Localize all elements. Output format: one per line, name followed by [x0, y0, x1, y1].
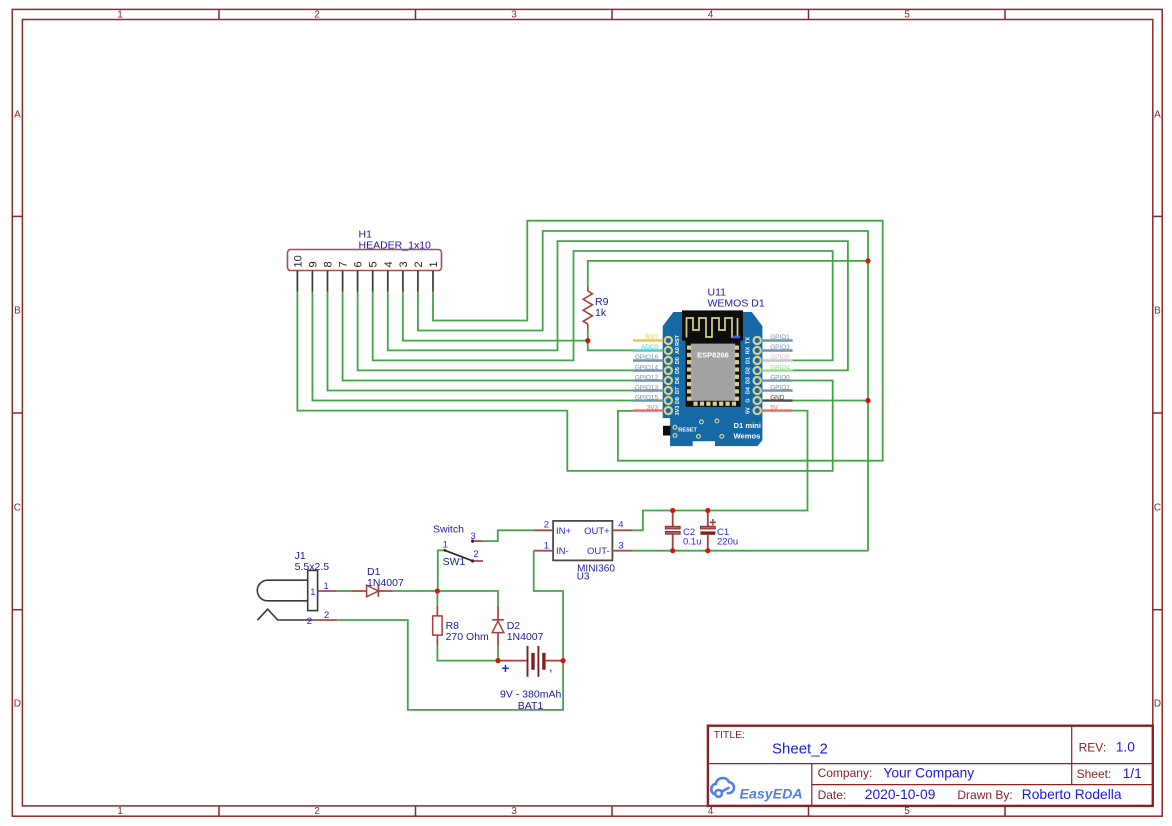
capacitor C1 220u polarized [700, 511, 716, 551]
junction: C2 top / 5V rail [670, 508, 675, 513]
svg-text:SW1: SW1 [443, 556, 466, 568]
svg-text:4: 4 [618, 520, 623, 531]
switch SW1 [444, 540, 484, 563]
svg-text:2020-10-09: 2020-10-09 [865, 787, 936, 802]
svg-text:2: 2 [314, 10, 320, 21]
WEMOS left pin stub RST [633, 339, 663, 341]
svg-text:5V: 5V [746, 407, 752, 414]
wire net BAT-: J1 pin2 loop to battery minus [337, 620, 563, 710]
WEMOS left pin stub GPIO16 [633, 359, 663, 361]
wire net 5V: WEMOS 5V stub down to cap rail [633, 411, 808, 531]
svg-text:8: 8 [323, 261, 335, 267]
WEMOS right pin stub GND [762, 399, 792, 401]
svg-text:OUT-: OUT- [587, 546, 610, 557]
junction: C2 bottom / GND rail [670, 548, 675, 553]
svg-text:TX: TX [746, 337, 752, 344]
svg-text:1: 1 [324, 581, 329, 592]
wire: rail to R8 top [436, 591, 438, 606]
svg-text:9V - 380mAh: 9V - 380mAh [500, 688, 561, 700]
svg-text:GPIO5: GPIO5 [770, 354, 790, 361]
diode D2 1N4007 [492, 606, 504, 646]
svg-text:1: 1 [117, 10, 123, 21]
svg-text:EasyEDA: EasyEDA [740, 786, 803, 802]
svg-text:1: 1 [428, 261, 440, 267]
wire net GPIO0: H1 pin10 under WEMOS to GPIO0 stub [297, 292, 832, 471]
WEMOS right pin stub GPIO1 [762, 339, 792, 341]
svg-text:1: 1 [310, 587, 315, 598]
svg-text:C: C [1154, 502, 1161, 513]
WEMOS left pin stub GPIO15 [633, 399, 663, 401]
WEMOS right pin stub 5V [762, 409, 792, 411]
svg-text:1.0: 1.0 [1116, 739, 1136, 754]
svg-text:D8: D8 [675, 397, 681, 404]
svg-text:Sheet:: Sheet: [1077, 767, 1112, 781]
svg-text:,: , [550, 663, 553, 673]
svg-text:RESET: RESET [678, 427, 697, 433]
svg-text:2: 2 [307, 616, 312, 627]
svg-text:D3: D3 [746, 377, 752, 384]
svg-text:Date:: Date: [818, 788, 847, 802]
wire net GND: MINI360 OUT- rail to GND vertical [633, 550, 868, 552]
wire: SW1 pin1 down to rail [438, 550, 445, 591]
WEMOS right pin stub GPIO2 [762, 389, 792, 391]
svg-text:1: 1 [443, 540, 448, 551]
svg-text:WEMOS D1: WEMOS D1 [708, 297, 765, 309]
svg-text:GPIO14: GPIO14 [635, 364, 659, 371]
svg-text:GPIO3: GPIO3 [770, 344, 790, 351]
svg-text:IN+: IN+ [556, 526, 572, 537]
svg-text:7: 7 [338, 261, 350, 267]
resistor R9 1k [583, 286, 592, 329]
wire: R8 bottom to battery rail [437, 645, 498, 660]
module U11 WEMOS D1 mini [663, 310, 763, 446]
svg-text:1N4007: 1N4007 [367, 577, 404, 589]
svg-text:3: 3 [511, 806, 517, 817]
svg-text:GND: GND [770, 394, 785, 401]
wire net GPIO12: H1 pin7 to WEMOS GPIO12 stub [343, 292, 633, 381]
svg-text:9: 9 [307, 261, 319, 267]
WEMOS left pin stub GPIO12 [633, 379, 663, 381]
svg-text:GPIO16: GPIO16 [635, 354, 659, 361]
svg-text:4: 4 [383, 261, 395, 267]
wire net GPIO14: H1 pin6 to WEMOS GPIO14 stub [358, 292, 633, 371]
svg-text:6: 6 [353, 261, 365, 267]
wire: D2 bottom to battery rail [497, 645, 499, 660]
svg-text:1/1: 1/1 [1123, 766, 1142, 781]
svg-text:2: 2 [324, 610, 329, 621]
svg-text:HEADER_1x10: HEADER_1x10 [359, 240, 432, 252]
junction: R9 bottom / H1 pin3 / ADC0 [585, 338, 590, 343]
wire net 3V3: H1 pin1 over top to right side [433, 221, 883, 461]
svg-text:B: B [1154, 306, 1161, 317]
svg-text:D7: D7 [675, 387, 681, 394]
junction: C1 top / 5V rail [705, 508, 710, 513]
svg-text:GPIO4: GPIO4 [770, 364, 790, 371]
svg-text:D5: D5 [675, 367, 681, 374]
svg-text:RST: RST [675, 334, 681, 345]
svg-text:2: 2 [473, 549, 478, 560]
svg-text:GPIO1: GPIO1 [770, 334, 790, 341]
svg-text:Your Company: Your Company [883, 765, 974, 780]
wire net A0: H1 pin3 to R9 bottom junction and ADC0 stub [403, 292, 588, 341]
svg-text:3: 3 [511, 10, 517, 21]
svg-text:GPIO0: GPIO0 [770, 374, 790, 381]
wire net GND: R9 top to GND vertical [588, 261, 868, 286]
EasyEDA logo [711, 778, 802, 802]
svg-text:D1 mini: D1 mini [734, 421, 761, 430]
svg-text:3V3: 3V3 [647, 404, 659, 411]
svg-text:Drawn By:: Drawn By: [957, 788, 1012, 802]
svg-text:B: B [14, 306, 21, 317]
svg-text:3V3: 3V3 [675, 406, 681, 416]
wire net GND: H1 pin2 over top to GND vertical [418, 231, 868, 551]
svg-text:GPIO13: GPIO13 [635, 384, 659, 391]
resistor R8 270 Ohm [433, 606, 442, 646]
WEMOS right pin stub GPIO5 [762, 359, 792, 361]
J1 pin 1 stub [318, 590, 338, 592]
svg-text:GPIO15: GPIO15 [635, 394, 659, 401]
svg-text:5V: 5V [770, 404, 779, 411]
svg-text:RX: RX [746, 346, 752, 354]
svg-text:ADC0: ADC0 [641, 344, 658, 351]
svg-text:0.1u: 0.1u [683, 537, 702, 548]
svg-text:3: 3 [618, 540, 623, 551]
WEMOS right pin stub GPIO0 [762, 379, 792, 381]
svg-text:2: 2 [544, 520, 549, 531]
svg-text:2: 2 [413, 261, 425, 267]
svg-text:A: A [14, 110, 21, 121]
svg-text:5: 5 [904, 806, 910, 817]
connector H1 HEADER_1x10 [288, 250, 442, 292]
svg-text:RST: RST [645, 334, 658, 341]
svg-text:Company:: Company: [818, 766, 873, 780]
wire net GPIO5: H1 pin5 over top to WEMOS GPIO5 stub [373, 251, 833, 360]
svg-text:REV:: REV: [1079, 740, 1107, 754]
svg-text:1: 1 [117, 806, 123, 817]
WEMOS left pin stub GPIO13 [633, 389, 663, 391]
svg-text:1N4007: 1N4007 [507, 631, 544, 643]
svg-text:D: D [1154, 699, 1161, 710]
svg-text:5.5x2.5: 5.5x2.5 [295, 561, 330, 573]
svg-text:220u: 220u [717, 537, 738, 548]
svg-text:1: 1 [544, 540, 549, 551]
svg-text:5: 5 [904, 10, 910, 21]
J1 pin 2 stub [312, 619, 337, 621]
svg-text:GPIO2: GPIO2 [770, 384, 790, 391]
wire: D1 cathode rail to D2 branch [393, 591, 499, 606]
WEMOS right pin stub GPIO4 [762, 369, 792, 371]
svg-text:4: 4 [708, 806, 714, 817]
wire net GPIO4: H1 pin4 over top to WEMOS GPIO4 stub [388, 241, 848, 370]
junction: GND stub row / GND vertical [865, 398, 870, 403]
WEMOS right pin stub GPIO3 [762, 349, 792, 351]
WEMOS left pin stub 3V3 [633, 409, 663, 411]
svg-text:10: 10 [292, 255, 304, 267]
wire: J1 pin1 to D1 [337, 590, 352, 592]
WEMOS left pin stub ADC0 [633, 349, 663, 351]
battery BAT1 9V-380mAh [498, 646, 563, 677]
svg-text:Sheet_2: Sheet_2 [772, 741, 828, 758]
svg-text:D2: D2 [746, 367, 752, 374]
diode D1 1N4007 [353, 585, 393, 597]
svg-text:OUT+: OUT+ [584, 526, 610, 537]
svg-text:1k: 1k [595, 307, 607, 319]
svg-text:G: G [746, 398, 752, 402]
svg-text:Roberto Rodella: Roberto Rodella [1022, 787, 1122, 802]
svg-text:3: 3 [398, 261, 410, 267]
svg-text:IN-: IN- [556, 546, 569, 557]
regulator module U3 MINI360 [534, 521, 633, 561]
wire net GPIO13: H1 pin8 to WEMOS GPIO13 stub [328, 292, 633, 391]
svg-text:4: 4 [708, 10, 714, 21]
svg-text:270 Ohm: 270 Ohm [446, 631, 489, 643]
svg-text:D6: D6 [675, 377, 681, 384]
WEMOS left pin stub GPIO14 [633, 369, 663, 371]
wire net BAT-: MINI360 IN- down to battery minus [534, 551, 563, 661]
svg-text:+: + [502, 661, 510, 676]
junction: R9 top / GND vertical [865, 258, 870, 263]
svg-text:D0: D0 [675, 357, 681, 364]
svg-text:3: 3 [471, 531, 476, 542]
svg-text:5: 5 [368, 261, 380, 267]
capacitor C2 0.1u [665, 511, 680, 551]
wire net GND: WEMOS GND stub to GND vertical [793, 400, 868, 402]
svg-text:U3: U3 [577, 572, 590, 583]
svg-text:C: C [14, 502, 21, 513]
junction: D1 rail / SW1 / R8 [435, 588, 440, 593]
svg-text:2: 2 [314, 806, 320, 817]
connector J1 5.5x2.5 barrel jack [257, 570, 317, 620]
svg-text:A: A [1154, 110, 1161, 121]
wire: SW1 pin3 to MINI360 IN+ [482, 530, 533, 541]
svg-text:ESP8266: ESP8266 [697, 351, 729, 360]
junction: BAT1 minus / IN- / J1 pin2 loop [561, 658, 566, 663]
svg-text:A0: A0 [675, 347, 681, 354]
svg-text:D4: D4 [746, 387, 752, 394]
svg-text:D1: D1 [746, 357, 752, 364]
wire net GPIO15: H1 pin9 to WEMOS GPIO15 stub [312, 292, 633, 401]
svg-text:D: D [14, 699, 21, 710]
junction: R8 / D2 / BAT1 plus [495, 658, 500, 663]
svg-text:GPIO12: GPIO12 [635, 374, 659, 381]
junction: C1 bottom / GND rail [705, 548, 710, 553]
svg-text:TITLE:: TITLE: [714, 729, 746, 741]
svg-text:Wemos: Wemos [734, 432, 761, 441]
title block [708, 726, 1153, 806]
svg-text:Switch: Switch [433, 523, 464, 535]
